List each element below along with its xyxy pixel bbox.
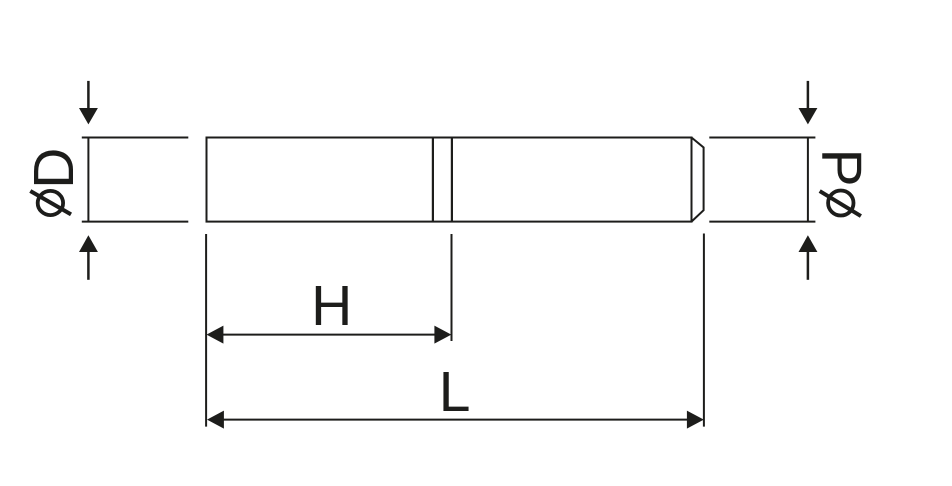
arrowhead H right — [434, 326, 451, 344]
diameter symbol circle left — [38, 191, 63, 215]
arrowhead P bottom — [799, 235, 818, 252]
extension line bottom right (diameter P) — [709, 221, 815, 223]
arrowhead D top — [79, 108, 98, 124]
arrowhead L right — [687, 411, 704, 429]
dimension line P vertical — [807, 138, 809, 222]
svg-text:D: D — [22, 148, 86, 189]
arrow tail top left — [87, 81, 90, 109]
arrowhead L left — [207, 411, 224, 429]
dimension line D vertical — [87, 138, 89, 222]
dimension line H — [221, 334, 436, 336]
svg-text:L: L — [439, 360, 471, 424]
arrow tail bottom left — [87, 252, 90, 280]
diameter symbol slash left — [30, 191, 71, 214]
extension line left vertical (H and L) — [205, 234, 207, 427]
extension line right vertical (L) — [703, 234, 705, 427]
pin body outline — [207, 138, 692, 222]
svg-text:H: H — [311, 274, 352, 338]
arrowhead D bottom — [79, 235, 98, 252]
arrowhead H left — [207, 326, 224, 344]
extension line top left (diameter D) — [82, 137, 189, 139]
collar line 1 — [432, 138, 434, 222]
dimension line L — [221, 419, 689, 421]
diameter symbol slash right — [820, 191, 861, 216]
diameter symbol circle right — [828, 191, 853, 216]
arrowhead P top — [799, 108, 818, 124]
arrow tail bottom right — [807, 252, 810, 280]
extension line top right (diameter P) — [709, 137, 815, 139]
extension line bottom left (diameter D) — [82, 221, 189, 223]
svg-text:P: P — [809, 149, 873, 187]
collar line 2 — [451, 138, 453, 222]
arrow tail top right — [807, 81, 810, 109]
extension line middle vertical (H) — [451, 234, 453, 341]
chamfered tip — [692, 138, 704, 222]
